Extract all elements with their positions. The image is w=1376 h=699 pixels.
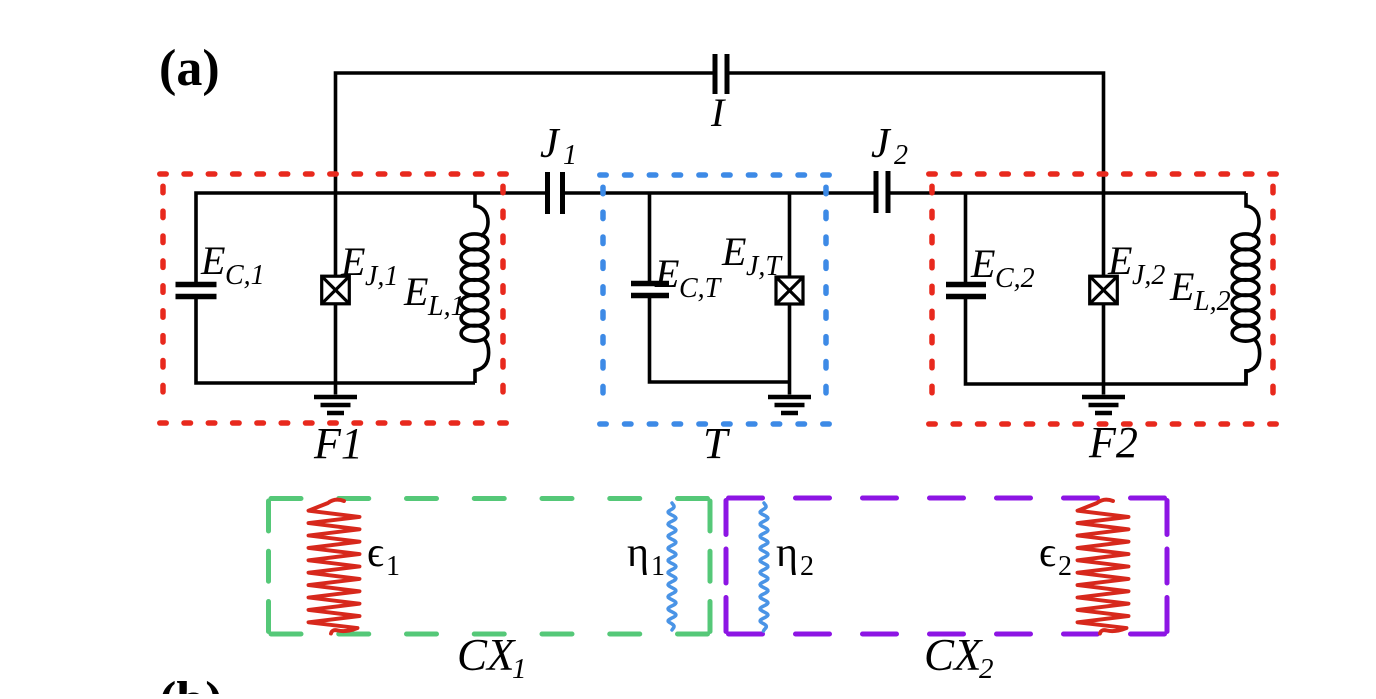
JJ box EJ2 bbox=[1090, 276, 1118, 304]
dashed box CX2 (purple) bbox=[729, 496, 1165, 501]
wire main horizontal middle (T top) bbox=[565, 191, 874, 195]
capacitor J2 plates bbox=[874, 171, 879, 213]
svg-text:E: E bbox=[654, 251, 679, 296]
svg-text:1: 1 bbox=[512, 653, 527, 685]
wire top-left vertical (I branch left) bbox=[336, 73, 714, 276]
svg-text:J: J bbox=[540, 121, 561, 167]
capacitor EC1 plates bbox=[176, 282, 217, 288]
wire F2 left vertical bbox=[964, 193, 968, 282]
svg-text:J,1: J,1 bbox=[365, 261, 398, 292]
svg-text:C,2: C,2 bbox=[995, 263, 1035, 294]
svg-text:E: E bbox=[721, 229, 746, 274]
svg-text:E: E bbox=[1169, 264, 1194, 309]
ground F1 bbox=[314, 395, 357, 400]
svg-text:C,T: C,T bbox=[679, 273, 723, 304]
JJ box EJ1 bbox=[322, 276, 350, 304]
wire T left vertical bbox=[648, 193, 652, 281]
svg-text:E: E bbox=[970, 241, 995, 286]
svg-text:F1: F1 bbox=[313, 419, 363, 468]
svg-text:ϵ: ϵ bbox=[1039, 530, 1056, 576]
JJ box EJT bbox=[776, 277, 803, 304]
wire top-right vertical (I branch right) bbox=[729, 73, 1104, 276]
wire F2 bottom bbox=[966, 299, 1247, 384]
wire T bottom bbox=[650, 298, 790, 382]
wire main horizontal left (F1 top) bbox=[196, 193, 545, 282]
ground F2 bbox=[1082, 395, 1125, 400]
svg-text:T: T bbox=[703, 419, 731, 468]
svg-text:E: E bbox=[200, 238, 225, 283]
svg-text:J,T: J,T bbox=[746, 251, 783, 282]
dashed box F2 (red) bbox=[929, 174, 1276, 424]
svg-text:2: 2 bbox=[894, 140, 908, 171]
svg-text:E: E bbox=[403, 269, 428, 314]
capacitor I plates bbox=[713, 54, 718, 94]
dashed box F1 (red) bbox=[160, 174, 506, 423]
wave eta1 (blue) bbox=[668, 503, 676, 630]
svg-text:J,2: J,2 bbox=[1132, 260, 1165, 291]
capacitor EC2 plates bbox=[946, 282, 986, 288]
wire main horizontal right (F2 top) bbox=[891, 191, 1247, 195]
svg-text:F2: F2 bbox=[1088, 418, 1138, 467]
svg-text:ϵ: ϵ bbox=[367, 530, 384, 576]
svg-text:J: J bbox=[871, 121, 892, 167]
wire T junction vertical bottom bbox=[788, 304, 792, 395]
wire F2 junction vertical bbox=[1102, 304, 1106, 395]
wire F1 left bottom bbox=[196, 299, 475, 383]
svg-text:I: I bbox=[710, 90, 726, 135]
svg-text:η: η bbox=[627, 530, 649, 576]
svg-text:E: E bbox=[340, 239, 365, 284]
spring epsilon1 (red) bbox=[309, 500, 360, 634]
capacitor ECT plates bbox=[631, 281, 669, 287]
inductor EL2 coil bbox=[1246, 193, 1259, 236]
svg-text:L,2: L,2 bbox=[1193, 286, 1231, 317]
svg-text:CX: CX bbox=[924, 630, 983, 680]
inductor EL1 coil bbox=[475, 193, 488, 236]
svg-text:L,1: L,1 bbox=[427, 291, 465, 322]
svg-text:1: 1 bbox=[563, 140, 577, 171]
wire F1 junction vertical bbox=[334, 304, 338, 395]
ground T bbox=[768, 395, 811, 400]
svg-text:2: 2 bbox=[1058, 551, 1072, 582]
svg-text:(b): (b) bbox=[159, 672, 223, 694]
svg-text:CX: CX bbox=[457, 630, 516, 680]
svg-text:2: 2 bbox=[800, 551, 814, 582]
dashed box CX1 (green) bbox=[271, 496, 708, 501]
wire T junction vertical top bbox=[788, 193, 792, 277]
capacitor J1 plates bbox=[545, 172, 550, 214]
svg-text:1: 1 bbox=[651, 551, 665, 582]
spring epsilon2 (red) bbox=[1078, 500, 1129, 634]
svg-text:E: E bbox=[1107, 238, 1132, 283]
svg-text:C,1: C,1 bbox=[225, 260, 265, 291]
svg-text:1: 1 bbox=[386, 551, 400, 582]
svg-text:(a): (a) bbox=[159, 40, 220, 97]
wave eta2 (blue) bbox=[760, 503, 768, 631]
svg-text:η: η bbox=[776, 530, 798, 576]
dashed box T (blue) bbox=[600, 175, 829, 424]
svg-text:2: 2 bbox=[979, 653, 994, 685]
